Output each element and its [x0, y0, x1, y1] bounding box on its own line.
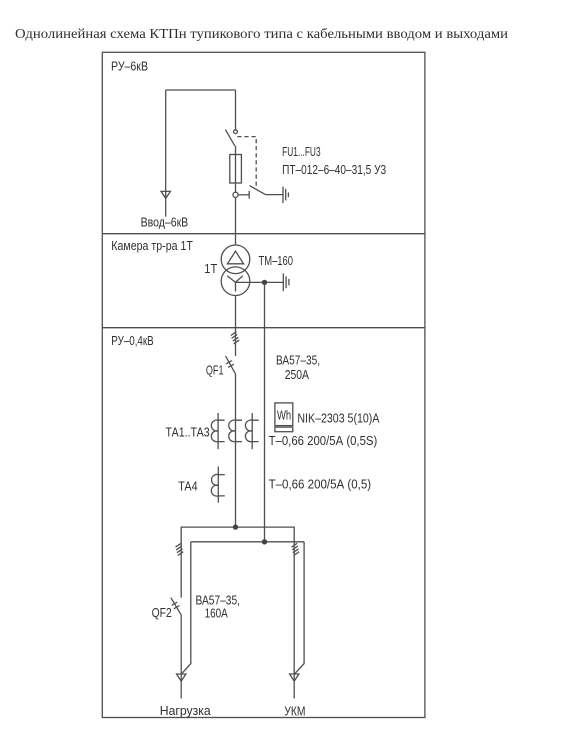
- transformer 1T primary circle: [221, 245, 250, 274]
- CT TA2 winding: [229, 420, 242, 442]
- slash marks 4 conductors: [231, 332, 239, 344]
- circuit breaker QF2 blade: [171, 598, 181, 615]
- svg-text:QF1: QF1: [206, 363, 224, 378]
- wire top horizontal: [166, 89, 236, 91]
- inner bus: [191, 541, 304, 543]
- earthing switch fixed contact bar: [248, 191, 250, 199]
- svg-text:ТА4: ТА4: [178, 478, 197, 493]
- svg-text:Ввод–6кВ: Ввод–6кВ: [141, 215, 189, 230]
- fuse FU1..FU3 body: [230, 155, 242, 184]
- wire QF1 to bus: [235, 374, 237, 527]
- CT TA3 winding: [245, 420, 258, 442]
- ground symbol at transformer neutral: [283, 273, 289, 291]
- inner bus right drop: [295, 542, 304, 674]
- section divider 1: [102, 233, 425, 235]
- disconnector QS blade: [225, 130, 234, 146]
- CT TA4 stub: [217, 467, 219, 503]
- svg-text:250А: 250А: [285, 367, 310, 382]
- svg-text:Т–0,66 200/5А (0,5): Т–0,66 200/5А (0,5): [269, 476, 372, 491]
- arrow UKM: [290, 674, 299, 681]
- svg-text:NIK–2303 5(10)А: NIK–2303 5(10)А: [297, 411, 379, 426]
- transformer wye winding: [227, 276, 243, 292]
- CT TA4 winding: [211, 474, 224, 496]
- svg-text:Камера тр-ра 1Т: Камера тр-ра 1Т: [111, 238, 193, 253]
- arrow input Vvod-6kV: [161, 191, 170, 198]
- svg-text:УКМ: УКМ: [284, 704, 305, 719]
- slash marks left feeder: [176, 543, 184, 555]
- svg-text:ТА1..ТА3: ТА1..ТА3: [166, 424, 210, 439]
- wire transformer to QF1: [235, 296, 237, 357]
- svg-text:Wh: Wh: [277, 409, 291, 423]
- svg-text:РУ–0,4кВ: РУ–0,4кВ: [111, 333, 153, 348]
- mechanical link dashed: [237, 137, 256, 189]
- svg-text:ВА57–35,: ВА57–35,: [276, 353, 320, 368]
- transformer 1T secondary circle: [221, 267, 250, 296]
- CT TA1 stub: [217, 413, 219, 449]
- slash marks right feeder: [292, 543, 300, 555]
- earthing switch wire to ground: [265, 194, 283, 196]
- neutral wire from wye to ground: [236, 281, 284, 283]
- meter Wh terminal strip: [275, 427, 293, 432]
- earthing switch blade: [250, 186, 266, 195]
- svg-text:ТМ–160: ТМ–160: [259, 253, 294, 268]
- wire UKM feeder lower: [293, 673, 295, 699]
- wire blade to fuse: [235, 146, 237, 155]
- meter Wh box: [275, 403, 293, 426]
- svg-text:FU1...FU3: FU1...FU3: [282, 144, 321, 159]
- junction dot neutral: [262, 280, 267, 285]
- svg-text:ПТ–012–6–40–31,5 У3: ПТ–012–6–40–31,5 У3: [282, 162, 386, 177]
- ground symbol at earthing switch: [283, 187, 288, 203]
- inner bus left drop: [182, 542, 191, 674]
- disconnector QS contact circle: [234, 130, 238, 134]
- earthing switch fixed contact lead: [238, 194, 249, 196]
- outer bus: [181, 527, 294, 673]
- circuit breaker QF1 ticks: [226, 361, 234, 368]
- svg-text:160А: 160А: [205, 605, 228, 620]
- svg-text:Нагрузка: Нагрузка: [160, 703, 212, 718]
- circuit breaker QF2 ticks: [172, 602, 180, 609]
- junction dot inner bus: [262, 539, 267, 544]
- junction dot outer bus: [233, 524, 238, 529]
- transformer delta winding: [227, 251, 243, 264]
- svg-text:РУ–6кВ: РУ–6кВ: [111, 58, 148, 73]
- svg-text:Т–0,66 200/5А (0,5S): Т–0,66 200/5А (0,5S): [269, 433, 378, 448]
- wire to disconnector: [235, 90, 237, 130]
- wire node to transformer: [235, 197, 237, 245]
- wire QF2 to load arrow: [180, 615, 182, 699]
- wire through fuse: [235, 155, 237, 193]
- svg-text:1Т: 1Т: [204, 261, 217, 276]
- neutral wire down to inner bus: [264, 282, 266, 541]
- svg-text:QF2: QF2: [152, 605, 172, 620]
- svg-text:Однолинейная схема КТПн тупико: Однолинейная схема КТПн тупикового типа …: [15, 26, 509, 41]
- wire input branch vertical: [165, 90, 167, 217]
- circuit breaker QF1 blade: [226, 356, 236, 374]
- CT TA3 stub: [251, 413, 253, 449]
- CT TA1 winding: [211, 420, 224, 442]
- node circle below fuse: [233, 192, 238, 197]
- arrow load: [177, 674, 186, 681]
- section divider 2: [102, 327, 425, 329]
